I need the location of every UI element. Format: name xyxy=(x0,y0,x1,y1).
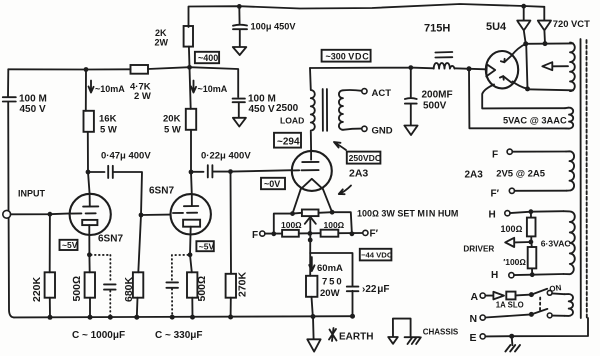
node junction 680K/grid2 xyxy=(139,213,144,218)
label 0.22u 400V xyxy=(201,151,251,162)
ground E hatch xyxy=(505,336,520,351)
wire ground bus xyxy=(14,316,353,317)
node junction cathode branch xyxy=(308,238,313,243)
terminal switch A xyxy=(547,290,552,295)
tube 6SN7 triode 2 xyxy=(171,172,211,255)
transformer winding primary mains xyxy=(565,294,574,316)
svg-text:2K: 2K xyxy=(155,28,167,38)
wire pot right bracket xyxy=(332,212,352,234)
node junction 100R upper xyxy=(529,209,534,214)
fuse 1A SLO xyxy=(485,292,529,310)
svg-text:C ~ 1000μF: C ~ 1000μF xyxy=(72,330,125,341)
terminal ACT xyxy=(362,88,391,99)
svg-text:6SN7: 6SN7 xyxy=(98,234,123,245)
node cathode 2 junction xyxy=(188,252,193,257)
inductor choke 15H xyxy=(424,23,455,69)
svg-text:0·22μ 400V: 0·22μ 400V xyxy=(201,151,251,162)
capacitor 22uF xyxy=(347,284,390,295)
svg-text:ON: ON xyxy=(549,283,562,294)
svg-text:20W: 20W xyxy=(320,288,340,299)
terminal H lower xyxy=(509,273,514,278)
svg-text:6SN7: 6SN7 xyxy=(149,186,174,197)
ground chassis symbol xyxy=(388,319,421,345)
tube 6SN7 triode 1 xyxy=(70,172,111,255)
potentiometer 100R 3W hum xyxy=(293,210,333,235)
svg-text:720 VCT: 720 VCT xyxy=(553,18,590,29)
current arrow ~10mA stage2 xyxy=(191,81,228,95)
node junction switch N xyxy=(529,312,534,317)
label C~330uF xyxy=(155,330,203,341)
label 6SN7 first xyxy=(98,234,123,245)
svg-text:N: N xyxy=(470,313,478,325)
label box ~294 xyxy=(274,133,301,148)
svg-text:500Ω: 500Ω xyxy=(196,276,208,302)
node junction 200MF xyxy=(408,65,413,70)
arrow DRIVER tap xyxy=(505,238,531,247)
svg-text:0·47μ 400V: 0·47μ 400V xyxy=(101,151,151,162)
svg-text:A: A xyxy=(471,291,479,303)
svg-text:500V: 500V xyxy=(423,101,447,112)
svg-text:5 W: 5 W xyxy=(100,125,117,136)
transformer winding 6.3VAC xyxy=(564,211,575,274)
terminal F left xyxy=(260,231,265,236)
svg-text:2A3: 2A3 xyxy=(465,170,484,181)
resistor 16K 5W xyxy=(84,70,117,173)
svg-text:DRIVER: DRIVER xyxy=(463,245,494,254)
node junction 16K top xyxy=(84,67,89,72)
wire pot left bracket xyxy=(274,214,293,234)
svg-text:5 W: 5 W xyxy=(164,125,181,136)
wire 22uF branch loop xyxy=(310,235,352,317)
arrow HV center tap xyxy=(542,62,568,70)
svg-text:220K: 220K xyxy=(31,276,43,302)
current arrow 60mA xyxy=(309,257,343,274)
wire F to 2.5V winding top xyxy=(512,151,566,153)
ground earth triangle xyxy=(307,339,320,351)
label box ~300VDC xyxy=(322,50,371,62)
transformer OPT primary xyxy=(310,68,315,150)
terminal F right xyxy=(507,149,512,154)
resistor 20K 5W xyxy=(163,67,196,172)
capacitor bypass C1 dotted 1000uF xyxy=(91,255,116,317)
svg-text:LOAD: LOAD xyxy=(280,115,304,125)
transformer winding 5VAC 3A xyxy=(565,108,573,129)
svg-text:250VDC: 250VDC xyxy=(349,153,381,163)
wire switch N to primary xyxy=(552,315,564,317)
svg-text:7 5 0: 7 5 0 xyxy=(322,277,342,288)
wire top B+ rail xyxy=(189,4,545,27)
node junction driver tap xyxy=(529,240,534,245)
resistor 100R upper right xyxy=(501,212,536,242)
node bus junctions xyxy=(48,315,234,320)
svg-text:100 M: 100 M xyxy=(19,94,47,105)
label F left xyxy=(252,230,258,241)
svg-text:60mA: 60mA xyxy=(317,263,343,274)
label DRIVER xyxy=(463,245,494,254)
diode D2 silicon xyxy=(538,7,551,44)
svg-text:′100Ω: ′100Ω xyxy=(503,257,526,267)
wire secondary to GND xyxy=(343,129,362,130)
svg-text:H: H xyxy=(491,270,498,281)
wire H upper to 6.3V winding xyxy=(510,211,564,213)
wire input to grid1 xyxy=(11,212,71,215)
label box ~5V first xyxy=(60,240,78,250)
label INPUT xyxy=(18,189,46,199)
label 6.3VAC xyxy=(541,238,571,248)
wire driver B+ bus y69 xyxy=(8,67,238,97)
terminal A xyxy=(480,293,485,298)
svg-text:E: E xyxy=(470,332,477,344)
node cathode 1 junction xyxy=(87,252,92,257)
label 6SN7 second xyxy=(149,186,174,197)
svg-text:20K: 20K xyxy=(163,114,181,125)
svg-text:~0V: ~0V xyxy=(264,179,280,189)
svg-text:100Ω: 100Ω xyxy=(501,224,523,234)
wire B+ to 5V winding bottom xyxy=(469,69,566,129)
svg-text:2 W: 2 W xyxy=(134,91,151,102)
node junction 2K/20K xyxy=(187,65,192,70)
svg-text:›22 μF: ›22 μF xyxy=(362,284,390,295)
svg-text:ACT: ACT xyxy=(372,88,392,99)
label CHASSIS xyxy=(423,327,459,336)
wire left edge B+ branch xyxy=(8,69,14,317)
resistor 680K xyxy=(123,215,143,317)
node junction plate1/cap xyxy=(86,170,91,175)
capacitor bypass C2 dotted 330uF xyxy=(166,255,188,317)
svg-text:2500: 2500 xyxy=(276,103,299,114)
ground triangle below 100u cap xyxy=(233,47,247,55)
terminal N xyxy=(480,315,485,320)
node junctions F row xyxy=(271,231,354,236)
svg-text:1A SLO: 1A SLO xyxy=(496,301,524,310)
svg-text:~10mA: ~10mA xyxy=(198,84,228,94)
label F right xyxy=(492,149,498,160)
svg-text:450 V: 450 V xyxy=(20,104,46,115)
terminal F prime left xyxy=(363,229,379,240)
terminal H upper xyxy=(505,211,510,216)
capacitor 100M 450V left xyxy=(3,94,47,116)
terminal input jack xyxy=(3,210,11,218)
svg-text:2A3: 2A3 xyxy=(349,168,368,180)
label box ~0V xyxy=(261,178,285,189)
svg-text:5U4: 5U4 xyxy=(486,21,507,33)
svg-text:−44 VDC: −44 VDC xyxy=(361,250,393,259)
svg-text:2W: 2W xyxy=(155,38,169,48)
svg-text:100Ω 3W SET M I N HUM: 100Ω 3W SET M I N HUM xyxy=(357,209,458,219)
wire E row xyxy=(485,318,588,336)
capacitor 0.22u coupling xyxy=(191,165,231,177)
svg-text:F: F xyxy=(252,230,258,241)
label EARTH with star xyxy=(329,328,373,343)
wire main B+ 300VDC xyxy=(310,68,486,70)
wire F prime to 2.5V winding bottom xyxy=(515,190,567,192)
node junction 220K top xyxy=(48,212,53,217)
resistor 4.7K 2W xyxy=(130,65,151,102)
svg-text:C ~ 330μF: C ~ 330μF xyxy=(155,330,203,341)
transformer core solid xyxy=(580,39,582,318)
svg-text:F: F xyxy=(492,149,498,160)
wire N row xyxy=(485,315,529,318)
resistor 100R lower right xyxy=(503,242,536,275)
svg-text:100μ 450V: 100μ 450V xyxy=(251,21,297,31)
label 2A3 2V5 at 2A5 xyxy=(465,168,546,180)
svg-text:100Ω: 100Ω xyxy=(281,220,302,230)
node junction plate2/cap xyxy=(189,170,194,175)
label 720 VCT xyxy=(553,18,590,29)
svg-text:F′: F′ xyxy=(370,229,379,240)
label N xyxy=(470,313,478,325)
node junction 100R lower xyxy=(530,272,535,277)
node junction B+ takeoff xyxy=(467,66,472,71)
svg-text:~294: ~294 xyxy=(277,137,300,148)
label 100R 3W SET MIN HUM xyxy=(357,209,458,219)
wire 2A3 grid xyxy=(231,170,293,171)
svg-text:GND: GND xyxy=(372,126,393,137)
terminal E xyxy=(480,334,485,339)
tube 2A3 xyxy=(292,150,332,191)
node junction HV bottom xyxy=(525,86,530,91)
label H upper xyxy=(489,210,496,221)
wire plate arm bottom 5U4 xyxy=(513,82,528,89)
switch blade A xyxy=(531,289,547,295)
svg-text:500Ω: 500Ω xyxy=(71,276,83,302)
label box ~5V second xyxy=(196,241,214,251)
wire H lower to 6.3V winding xyxy=(514,274,564,275)
label 220K xyxy=(31,276,43,302)
label 2A3 with arrow xyxy=(339,168,369,195)
svg-text:5VAC @ 3AAC: 5VAC @ 3AAC xyxy=(503,115,567,125)
label C~1000uF xyxy=(72,330,125,341)
wire plate arm top 5U4 xyxy=(512,44,526,56)
svg-text:715H: 715H xyxy=(424,23,450,35)
svg-text:H: H xyxy=(489,210,496,221)
label E xyxy=(470,332,477,344)
resistor 500R stage1 xyxy=(71,255,95,318)
ground triangle below 200MF xyxy=(404,126,417,136)
label A xyxy=(471,291,479,303)
capacitor 100M 450V (driver filter) xyxy=(233,94,276,118)
transformer OPT secondary xyxy=(339,90,343,130)
node rail junction 100u cap xyxy=(237,4,242,9)
svg-text:F′: F′ xyxy=(491,188,500,199)
resistor 2K 2W xyxy=(155,26,194,67)
label box -44VDC xyxy=(360,249,393,261)
label box ~400 xyxy=(195,52,219,63)
resistor 270K xyxy=(226,172,249,318)
terminal switch N xyxy=(547,313,552,318)
wire secondary to ACT xyxy=(343,89,362,92)
svg-text:INPUT: INPUT xyxy=(18,189,46,199)
switch gang dashed link xyxy=(539,298,541,312)
switch blade N xyxy=(531,309,547,315)
node junction E ground xyxy=(509,334,514,339)
node rail junction diode D1 xyxy=(521,4,526,9)
svg-text:680K: 680K xyxy=(123,276,135,302)
transformer winding 2.5V xyxy=(566,151,574,190)
label 2500 LOAD xyxy=(276,103,304,125)
capacitor 0.47u coupling xyxy=(88,166,142,215)
resistor 100R left xyxy=(265,220,321,237)
svg-text:EARTH: EARTH xyxy=(339,332,373,343)
node junction earth xyxy=(311,314,356,319)
svg-text:200MF: 200MF xyxy=(422,90,453,101)
wire HV bottom xyxy=(528,89,574,90)
label 5VAC at 3AAC xyxy=(503,115,567,125)
svg-text:2V5 @ 2A5: 2V5 @ 2A5 xyxy=(496,168,546,179)
node junction switch A xyxy=(529,292,534,297)
label H lower xyxy=(491,270,498,281)
ground triangle below 100M cap xyxy=(233,118,246,127)
capacitor 100u 450V (top rail filter) xyxy=(233,6,296,46)
svg-text:~5V: ~5V xyxy=(62,240,78,250)
svg-text:16K: 16K xyxy=(99,114,117,125)
resistor 100R right xyxy=(321,220,363,237)
resistor 500R stage2 xyxy=(187,255,208,317)
terminal F prime right xyxy=(491,188,515,199)
wire HV top to diodes xyxy=(526,42,573,44)
resistor 750 20W xyxy=(306,253,342,316)
svg-text:6·3VAC: 6·3VAC xyxy=(541,238,571,248)
transformer core dashed xyxy=(586,40,588,318)
node junction 270K/grid xyxy=(228,169,233,174)
svg-text:CHASSIS: CHASSIS xyxy=(423,327,459,336)
current arrow ~10mA stage1 xyxy=(89,81,126,95)
wire diode link vertical xyxy=(526,44,527,89)
svg-text:450 V: 450 V xyxy=(249,104,275,115)
svg-text:~400: ~400 xyxy=(198,53,218,63)
transformer OPT core xyxy=(323,89,327,131)
svg-text:~300 V D C: ~300 V D C xyxy=(326,51,370,61)
label ON xyxy=(549,283,562,294)
svg-text:270K: 270K xyxy=(237,271,249,297)
svg-text:~5V: ~5V xyxy=(199,241,215,251)
wire earth drop xyxy=(312,317,315,340)
label 0.47u 400V xyxy=(101,151,151,162)
transformer winding HV secondary xyxy=(570,43,575,92)
wire switch A to primary xyxy=(552,292,564,295)
capacitor 200MF 500V xyxy=(405,68,453,125)
node pot end junctions xyxy=(290,210,334,216)
node diode junctions xyxy=(523,41,547,46)
svg-text:100Ω: 100Ω xyxy=(324,220,345,230)
terminal GND xyxy=(362,126,393,137)
resistor 220K xyxy=(45,214,55,317)
label box 250VDC with arrow xyxy=(334,142,381,164)
label 5U4 xyxy=(486,21,507,33)
svg-text:~10mA: ~10mA xyxy=(95,84,125,94)
diode D1 silicon xyxy=(517,6,530,43)
tube 5U4 rectifier xyxy=(486,51,518,88)
wire filament legs to pot xyxy=(293,189,333,213)
wire 5U4 filament to 5V winding top xyxy=(482,85,565,109)
wire grid2 node xyxy=(141,214,171,216)
